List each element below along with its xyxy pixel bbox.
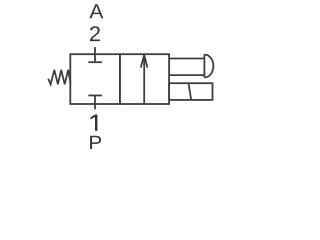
flow path arrow xyxy=(141,55,148,104)
valve body box left position xyxy=(70,54,120,104)
port 2 label xyxy=(90,26,100,41)
wire port A/2 external line xyxy=(94,47,96,54)
blocked port bottom (T symbol) xyxy=(88,95,102,104)
detent box xyxy=(169,83,212,100)
detent notch diagonal xyxy=(189,83,192,100)
wire port P/1 external line xyxy=(94,104,96,109)
blocked port top (T symbol) xyxy=(88,54,102,62)
spring (return) xyxy=(48,70,70,85)
port A label xyxy=(89,4,103,18)
port 1 label (Arial-style, no foot serif) xyxy=(90,115,97,131)
push button cap xyxy=(204,55,213,78)
valve body box right position xyxy=(120,54,169,104)
port P label xyxy=(90,136,101,149)
push button plunger xyxy=(169,59,204,76)
